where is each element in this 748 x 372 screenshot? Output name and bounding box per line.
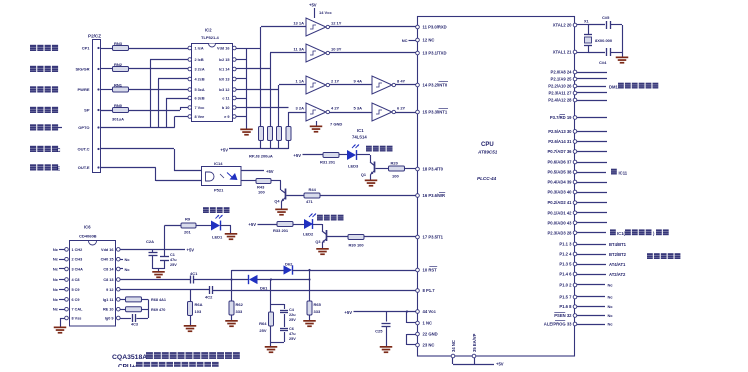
wire OPTO row	[101, 127, 175, 129]
svg-text:18 P3.4/T0: 18 P3.4/T0	[423, 167, 444, 172]
svg-text:Ic3 12: Ic3 12	[219, 88, 230, 92]
capacitor C25	[386, 312, 388, 322]
wire IC2 cathode pin6 to OPTO	[166, 98, 188, 100]
crystal X1	[588, 25, 590, 35]
svg-text:9 12: 9 12	[106, 288, 113, 292]
resistor R20	[389, 166, 405, 171]
svg-text:1 CH2: 1 CH2	[72, 248, 83, 252]
svg-text:ALE/PROG 33: ALE/PROG 33	[544, 322, 572, 327]
cpu right pin P2.4/A12 28	[573, 98, 577, 102]
svg-text:XTAL2 20: XTAL2 20	[553, 23, 572, 28]
wire IC6 pin8 Vss gnd	[60, 318, 65, 320]
svg-text:13 1A: 13 1A	[293, 21, 304, 26]
svg-text:P0.3/AD3 40: P0.3/AD3 40	[548, 190, 573, 195]
svg-text:IC14: IC14	[214, 161, 223, 166]
svg-text:C2A: C2A	[146, 239, 154, 244]
ground R65	[303, 320, 316, 322]
svg-text:6 2Y: 6 2Y	[397, 106, 406, 111]
IC2 right pin 16	[233, 46, 237, 50]
svg-text:CPU: CPU	[481, 142, 494, 148]
cpu left pin 1 NC	[416, 321, 420, 325]
IC6 pin10 res	[120, 309, 125, 311]
cpu left pin 23 NC	[416, 343, 420, 347]
wire junction C down	[270, 280, 272, 305]
svg-text:25V: 25V	[170, 263, 177, 267]
inverter U1E	[306, 103, 326, 121]
cpu left pin 11 P3.0/RXD	[416, 25, 420, 29]
svg-text:Nc: Nc	[125, 257, 131, 262]
IC2 left pin 3	[188, 67, 192, 71]
wire D62 to RST	[292, 270, 416, 272]
svg-text:BT2/BT2: BT2/BT2	[609, 252, 627, 257]
svg-text:P0.7/AD7 36: P0.7/AD7 36	[548, 149, 573, 154]
cpu left pin 18 P3.4/T0	[416, 167, 420, 171]
svg-text:74LS14: 74LS14	[352, 135, 367, 140]
svg-text:C8 14: C8 14	[103, 268, 114, 272]
svg-text:+5V: +5V	[266, 169, 274, 174]
cpu right pin XTAL1 21	[573, 50, 577, 54]
cpu left pin 22 GND	[416, 332, 420, 336]
svg-text:CH0 15: CH0 15	[101, 258, 114, 262]
cpu right pin P0.6/AD6 37	[573, 160, 577, 164]
svg-text:301uA: 301uA	[112, 117, 124, 122]
svg-text:2 IcB: 2 IcB	[195, 58, 204, 62]
svg-text:12 1Y: 12 1Y	[331, 21, 342, 26]
capacitor C#5	[606, 21, 608, 29]
svg-text:R6A: R6A	[195, 302, 203, 307]
svg-text:LED3: LED3	[348, 164, 359, 169]
LED LED2	[304, 219, 313, 229]
svg-text:P3.7/RD 19: P3.7/RD 19	[550, 115, 572, 120]
wire OUT.C to IC14	[101, 148, 174, 150]
IC2 right pin 14	[233, 67, 237, 71]
wire LED3 to Q1	[356, 154, 370, 156]
cpu right pin P2.6/A14 31	[573, 140, 577, 144]
resistor R65	[307, 301, 312, 315]
svg-text:25V: 25V	[289, 337, 296, 341]
wire RN1 row	[101, 89, 112, 91]
svg-text:1 1A: 1 1A	[296, 79, 305, 84]
cpu left pin 44 Vcc	[416, 310, 420, 314]
label 数码指示	[366, 146, 372, 152]
wire RN0 row	[101, 110, 112, 112]
ground LED1	[225, 233, 238, 235]
svg-text:4C1: 4C1	[190, 271, 198, 276]
svg-text:AT2/AT2: AT2/AT2	[609, 272, 626, 277]
wire	[196, 225, 211, 227]
IC6 right pin 11	[117, 298, 121, 302]
wire Q4 emitter	[281, 202, 283, 209]
svg-text:P1.4 6: P1.4 6	[559, 272, 572, 277]
svg-text:CD4060B: CD4060B	[79, 234, 97, 239]
svg-text:RN0: RN0	[114, 103, 123, 108]
svg-text:X1: X1	[584, 20, 589, 24]
wire buf2 input	[270, 52, 306, 54]
IC2 left pin 2	[188, 58, 192, 62]
inverter U1D	[372, 76, 392, 94]
svg-text:2 1Y: 2 1Y	[331, 79, 340, 84]
wire LED1 branch	[164, 226, 166, 250]
resistor RN1	[113, 87, 129, 92]
optocoupler IC2 TLP521-4 body	[192, 44, 233, 122]
svg-text:OUT.C: OUT.C	[78, 147, 90, 152]
IC6 right pin 16	[117, 248, 121, 252]
IC6 pin15 nc	[120, 259, 123, 261]
wire XTAL1	[577, 52, 588, 54]
label 视相电平	[30, 86, 36, 92]
svg-text:13 P3.1/TXD: 13 P3.1/TXD	[423, 51, 447, 56]
svg-text:47u: 47u	[289, 332, 296, 336]
connector P2/CZ	[93, 40, 101, 173]
svg-text:6 C9: 6 C9	[72, 298, 80, 302]
svg-text:44 Vcc: 44 Vcc	[423, 309, 437, 314]
cpu left pin 14 P3.2/INT0	[416, 83, 420, 87]
svg-text:Q3: Q3	[315, 240, 320, 244]
IC6 left pin 5	[65, 288, 69, 292]
cpu right pin P0.5/AD5 38	[573, 170, 577, 174]
capacitor C1 47u	[164, 249, 166, 256]
svg-text:P2.4/A12 28: P2.4/A12 28	[548, 98, 572, 103]
wire buf1 input	[261, 26, 306, 28]
resistor R62	[229, 301, 234, 315]
svg-text:R68 4A1: R68 4A1	[151, 298, 166, 302]
wire to P1.7	[213, 290, 416, 292]
IC2 right pin 13	[233, 77, 237, 81]
svg-text:11 3A: 11 3A	[294, 47, 305, 52]
IC2 left pin 1	[188, 46, 192, 50]
wire Q4 collector	[286, 195, 304, 197]
svg-text:Nc: Nc	[53, 287, 59, 292]
cpu right pin P1.4 6	[573, 272, 577, 276]
optocoupler IC14 P521	[202, 167, 242, 186]
cpu U2 AT89C51 body	[418, 17, 575, 357]
IC2 right pin 15	[233, 58, 237, 62]
svg-text:R65: R65	[314, 302, 322, 307]
ground buf5	[316, 121, 318, 126]
cpu right pin P1.1 3	[573, 242, 577, 246]
overlines active-low labels	[439, 81, 449, 83]
svg-text:1 NC: 1 NC	[423, 321, 433, 326]
wire OUT.E to IC14	[101, 167, 156, 169]
resistor RP3 pull-up	[277, 127, 282, 141]
cpu right pin P2.2/A10 26	[573, 84, 577, 88]
svg-text:RE 10: RE 10	[103, 308, 114, 312]
IC2 right pin 12	[233, 88, 237, 92]
svg-text:11 P3.0/RXD: 11 P3.0/RXD	[423, 25, 447, 30]
svg-text:+5V: +5V	[344, 310, 352, 315]
svg-text:C8 13: C8 13	[103, 278, 113, 282]
IC6 pin14 nc	[120, 268, 123, 270]
svg-text:P1.0 2: P1.0 2	[559, 283, 572, 288]
wire RN3 row	[101, 48, 112, 50]
svg-text:12 NC: 12 NC	[423, 38, 435, 43]
svg-text:Ic2 15: Ic2 15	[219, 58, 230, 62]
svg-text:D62: D62	[285, 262, 293, 267]
transistor Q1	[374, 162, 376, 173]
cpu right pin P2.5/A13 30	[573, 130, 577, 134]
svg-text:25V: 25V	[259, 328, 266, 333]
cpu right pin P1.3 5	[573, 262, 577, 266]
svg-text:PSEN 32: PSEN 32	[554, 313, 572, 318]
svg-text:R30 100: R30 100	[349, 243, 365, 248]
svg-text:103: 103	[195, 309, 202, 314]
svg-text:Vdd 16: Vdd 16	[217, 47, 229, 51]
svg-text:P1.5 7: P1.5 7	[559, 295, 572, 300]
resistor RN2	[113, 67, 129, 72]
capacitor C4 22u	[284, 304, 286, 309]
svg-text:+5V: +5V	[220, 148, 228, 153]
svg-text:471: 471	[306, 199, 313, 204]
svg-text:Nc: Nc	[53, 247, 59, 252]
svg-text:R62: R62	[236, 302, 244, 307]
inverter U1F	[372, 103, 392, 121]
svg-text:R64: R64	[259, 321, 267, 326]
wire IC2 collector y107.5	[247, 107, 289, 109]
svg-text:4 2Y: 4 2Y	[331, 106, 340, 111]
wire junction A vertical	[231, 270, 233, 301]
svg-text:RN2: RN2	[114, 62, 123, 67]
IC6 left pin 6	[65, 298, 69, 302]
resistor RP4 pull-up	[286, 127, 291, 141]
IC2 left pin 5	[188, 88, 192, 92]
wire RST row	[232, 270, 284, 272]
label 多通防冲	[30, 45, 36, 51]
capacitor C6 47u	[280, 328, 288, 330]
svg-text:Nc: Nc	[53, 297, 59, 302]
svg-text:Ig1 11: Ig1 11	[103, 298, 114, 302]
svg-text:P0.6/AD6 37: P0.6/AD6 37	[548, 160, 573, 165]
cpu right pin XTAL2 20	[573, 23, 577, 27]
IC2 right pin 10	[233, 106, 237, 110]
svg-text:34 NC: 34 NC	[451, 340, 456, 352]
svg-text:C#5: C#5	[602, 15, 610, 20]
wire Q3 collector	[327, 236, 348, 238]
label 下电电平	[30, 107, 36, 113]
wire Q3 emitter	[322, 243, 324, 248]
svg-text:5 3cA: 5 3cA	[195, 88, 205, 92]
wire R43 to Q4	[271, 180, 281, 182]
IC6 left pin 1	[65, 248, 69, 252]
svg-text:e 9: e 9	[224, 115, 229, 119]
wire bracket bottom	[271, 342, 284, 344]
svg-text:Ic1 14: Ic1 14	[219, 68, 230, 72]
wire +5V rail pullups	[229, 148, 289, 150]
IC6 right pin 14	[117, 267, 121, 271]
cpu right pin P0.1/AD1 42	[573, 211, 577, 215]
svg-text:R31 201: R31 201	[320, 160, 336, 165]
wire caps gnd bus	[153, 268, 165, 270]
svg-text:IC1: IC1	[357, 128, 364, 133]
svg-text:25V: 25V	[289, 318, 296, 322]
svg-text:22 GND: 22 GND	[423, 332, 438, 337]
IC2 right pin 11	[233, 96, 237, 100]
wire IC2 cathode pin8 to OPTO	[175, 116, 188, 118]
cpu right pin P0.0/AD0 43	[573, 221, 577, 225]
svg-text:P2.0/A8 24: P2.0/A8 24	[551, 70, 573, 75]
svg-text:PWRE: PWRE	[78, 87, 90, 92]
svg-text:16 P3.6/WR: 16 P3.6/WR	[423, 193, 446, 198]
svg-text:17 P3.5/T1: 17 P3.5/T1	[423, 235, 444, 240]
svg-text:10 RST: 10 RST	[423, 268, 438, 273]
svg-text:35 EA/VP: 35 EA/VP	[472, 333, 477, 352]
svg-text:CP1: CP1	[82, 46, 91, 51]
wire	[339, 154, 347, 156]
svg-text:22u: 22u	[289, 313, 296, 317]
wire IC6 pin13	[120, 279, 190, 281]
wire D61 out	[258, 279, 310, 281]
cpu left pin 15 P3.3/INT1	[416, 110, 420, 114]
resistor R31	[323, 153, 339, 158]
IC6 right pin 9	[117, 316, 121, 320]
wire IC2 cathode pin4 to OPTO	[158, 78, 188, 80]
svg-text:RN1: RN1	[114, 82, 123, 87]
wire	[293, 224, 304, 226]
wire buf3 input	[279, 84, 306, 86]
resistor R64	[270, 304, 272, 312]
svg-text:b 10: b 10	[222, 106, 230, 110]
svg-text:CQA3518A: CQA3518A	[112, 354, 147, 361]
resistor R33	[277, 222, 293, 227]
svg-text:Q4: Q4	[274, 200, 280, 204]
svg-text:3 2cA: 3 2cA	[195, 68, 205, 72]
ground crystal	[622, 25, 624, 52]
cpu left pin 13 P3.1/TXD	[416, 51, 420, 55]
ground Q1	[365, 180, 378, 182]
label 多相电平	[30, 66, 36, 72]
resistor R44	[304, 193, 320, 198]
IC2 left pin 7	[188, 106, 192, 110]
svg-text:9 4A: 9 4A	[354, 79, 363, 84]
svg-text:OPTO: OPTO	[78, 125, 89, 130]
ground R62	[225, 320, 238, 322]
svg-text:AT89C51: AT89C51	[477, 150, 498, 155]
svg-text:TLP521-4: TLP521-4	[201, 35, 220, 40]
IC6 left pin 8	[65, 316, 69, 320]
IC6 right pin 15	[117, 257, 121, 261]
svg-text:P1.1 3: P1.1 3	[559, 242, 572, 247]
cpu right pin P1.2 4	[573, 252, 577, 256]
transistor Q4	[285, 189, 287, 200]
svg-text:5 C9: 5 C9	[72, 288, 80, 292]
svg-text:23 NC: 23 NC	[423, 343, 435, 348]
wire LED1 to gnd	[220, 225, 231, 227]
LED LED1	[211, 221, 220, 231]
wire bottom +5V	[453, 364, 494, 366]
cpu left pin 12 NC	[416, 38, 420, 42]
IC2 right pin 9	[233, 115, 237, 119]
svg-text:IC6: IC6	[84, 225, 91, 230]
svg-text:RN3: RN3	[114, 41, 123, 46]
svg-text:P2.5/A13 30: P2.5/A13 30	[548, 129, 572, 134]
cpu left pin 17 P3.5/T1	[416, 235, 420, 239]
cpu right pin PSEN 32	[573, 314, 577, 318]
svg-text:Nc: Nc	[53, 257, 59, 262]
IC6 pin11 res	[120, 299, 125, 301]
cpu right pin P2.0/A8 24	[573, 70, 577, 74]
inverter U1A	[306, 18, 326, 36]
svg-text:IC11: IC11	[619, 171, 628, 176]
svg-text:P0.2/AD2 41: P0.2/AD2 41	[548, 200, 573, 205]
label 数传指示	[317, 215, 323, 221]
svg-text:R44: R44	[309, 187, 317, 192]
svg-text:P0.0/AD0 43: P0.0/AD0 43	[548, 220, 573, 225]
IC6 right pin 12	[117, 288, 121, 292]
IC2 left pin 6	[188, 96, 192, 100]
wire RN2 row	[101, 68, 112, 70]
wire pin1 bracket	[407, 322, 416, 324]
wire to junction A	[194, 279, 249, 281]
ground IC2	[240, 129, 253, 131]
svg-text:P1.3 5: P1.3 5	[559, 262, 572, 267]
svg-text:C25: C25	[375, 329, 383, 334]
inverter U1B	[306, 44, 326, 62]
svg-text:4 2cB: 4 2cB	[195, 78, 205, 82]
svg-text:LED1: LED1	[212, 235, 223, 240]
wire IC6 Vdd rail	[120, 249, 185, 251]
ground C1 C2A	[152, 271, 165, 273]
svg-text:14 Vcc: 14 Vcc	[319, 10, 332, 15]
svg-text:Q1: Q1	[361, 173, 366, 177]
svg-text:Nc: Nc	[53, 307, 59, 312]
wire IC2 collector y48	[247, 48, 262, 50]
capacitor 4C2	[209, 286, 211, 294]
label 电流指示	[203, 207, 209, 213]
svg-text:47u: 47u	[170, 258, 177, 262]
IC6 right pin 13	[117, 278, 121, 282]
svg-text:8 P1.7: 8 P1.7	[423, 288, 436, 293]
svg-text:7 CAL: 7 CAL	[72, 308, 84, 312]
svg-text:8 Vee: 8 Vee	[195, 115, 205, 119]
svg-text:Nc: Nc	[125, 267, 131, 272]
svg-text:+5V: +5V	[187, 248, 195, 253]
svg-text:333: 333	[236, 309, 243, 314]
svg-text:7 Vcc: 7 Vcc	[195, 106, 205, 110]
label 故障检测E	[30, 164, 36, 170]
wire R44 to pin16	[320, 195, 416, 197]
svg-text:100: 100	[392, 174, 399, 179]
cpu right pin P0.3/AD3 40	[573, 190, 577, 194]
svg-text:PLCC-44: PLCC-44	[477, 176, 497, 181]
svg-text:e 11: e 11	[222, 97, 229, 101]
svg-text:+5V: +5V	[496, 362, 504, 367]
svg-text:7 GND: 7 GND	[330, 122, 342, 127]
svg-text:SIG/GR: SIG/GR	[75, 67, 89, 72]
svg-text:Nc: Nc	[608, 304, 614, 309]
cpu left pin 8 P1.7	[416, 289, 420, 293]
resistor R6A	[190, 290, 192, 303]
svg-text:Nc: Nc	[608, 322, 614, 327]
svg-text:3 2A: 3 2A	[296, 106, 305, 111]
diode D62	[284, 265, 293, 274]
svg-text:AT4/AT1: AT4/AT1	[609, 262, 626, 267]
wire Q1 emitter gnd	[370, 175, 372, 180]
label 故障检测C	[30, 146, 36, 152]
svg-text:15 P3.3/INT1: 15 P3.3/INT1	[423, 110, 448, 115]
wire Q1 collector	[376, 168, 390, 170]
svg-text:8 Vss: 8 Vss	[72, 317, 82, 321]
svg-text:NC: NC	[402, 38, 408, 43]
svg-text:R9: R9	[185, 217, 191, 222]
ic IC6 CD4060B body	[70, 241, 116, 327]
cpu right pin P0.2/AD2 41	[573, 201, 577, 205]
diode D61	[249, 275, 258, 284]
svg-text:2 CH3: 2 CH3	[72, 258, 83, 262]
svg-text:P1.6 8: P1.6 8	[559, 304, 572, 309]
svg-text:8X00.000: 8X00.000	[595, 38, 613, 43]
ground R64	[265, 346, 278, 348]
resistor R43	[256, 179, 271, 184]
svg-text:10 3Y: 10 3Y	[331, 47, 342, 52]
